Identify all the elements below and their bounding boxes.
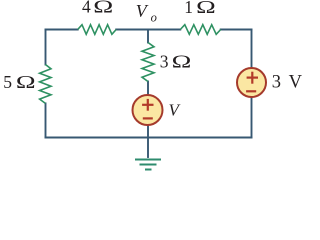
svg-text:Ω: Ω [172, 52, 192, 72]
svg-text:3: 3 [160, 52, 169, 72]
svg-text:Ω: Ω [93, 0, 113, 17]
svg-text:V: V [289, 73, 303, 93]
svg-text:Ω: Ω [16, 72, 36, 92]
svg-text:Ω: Ω [196, 0, 216, 17]
svg-text:5: 5 [3, 72, 12, 92]
svg-text:1: 1 [184, 0, 193, 17]
svg-text:3: 3 [272, 73, 281, 93]
svg-text:o: o [151, 11, 157, 25]
svg-text:4: 4 [82, 0, 91, 17]
